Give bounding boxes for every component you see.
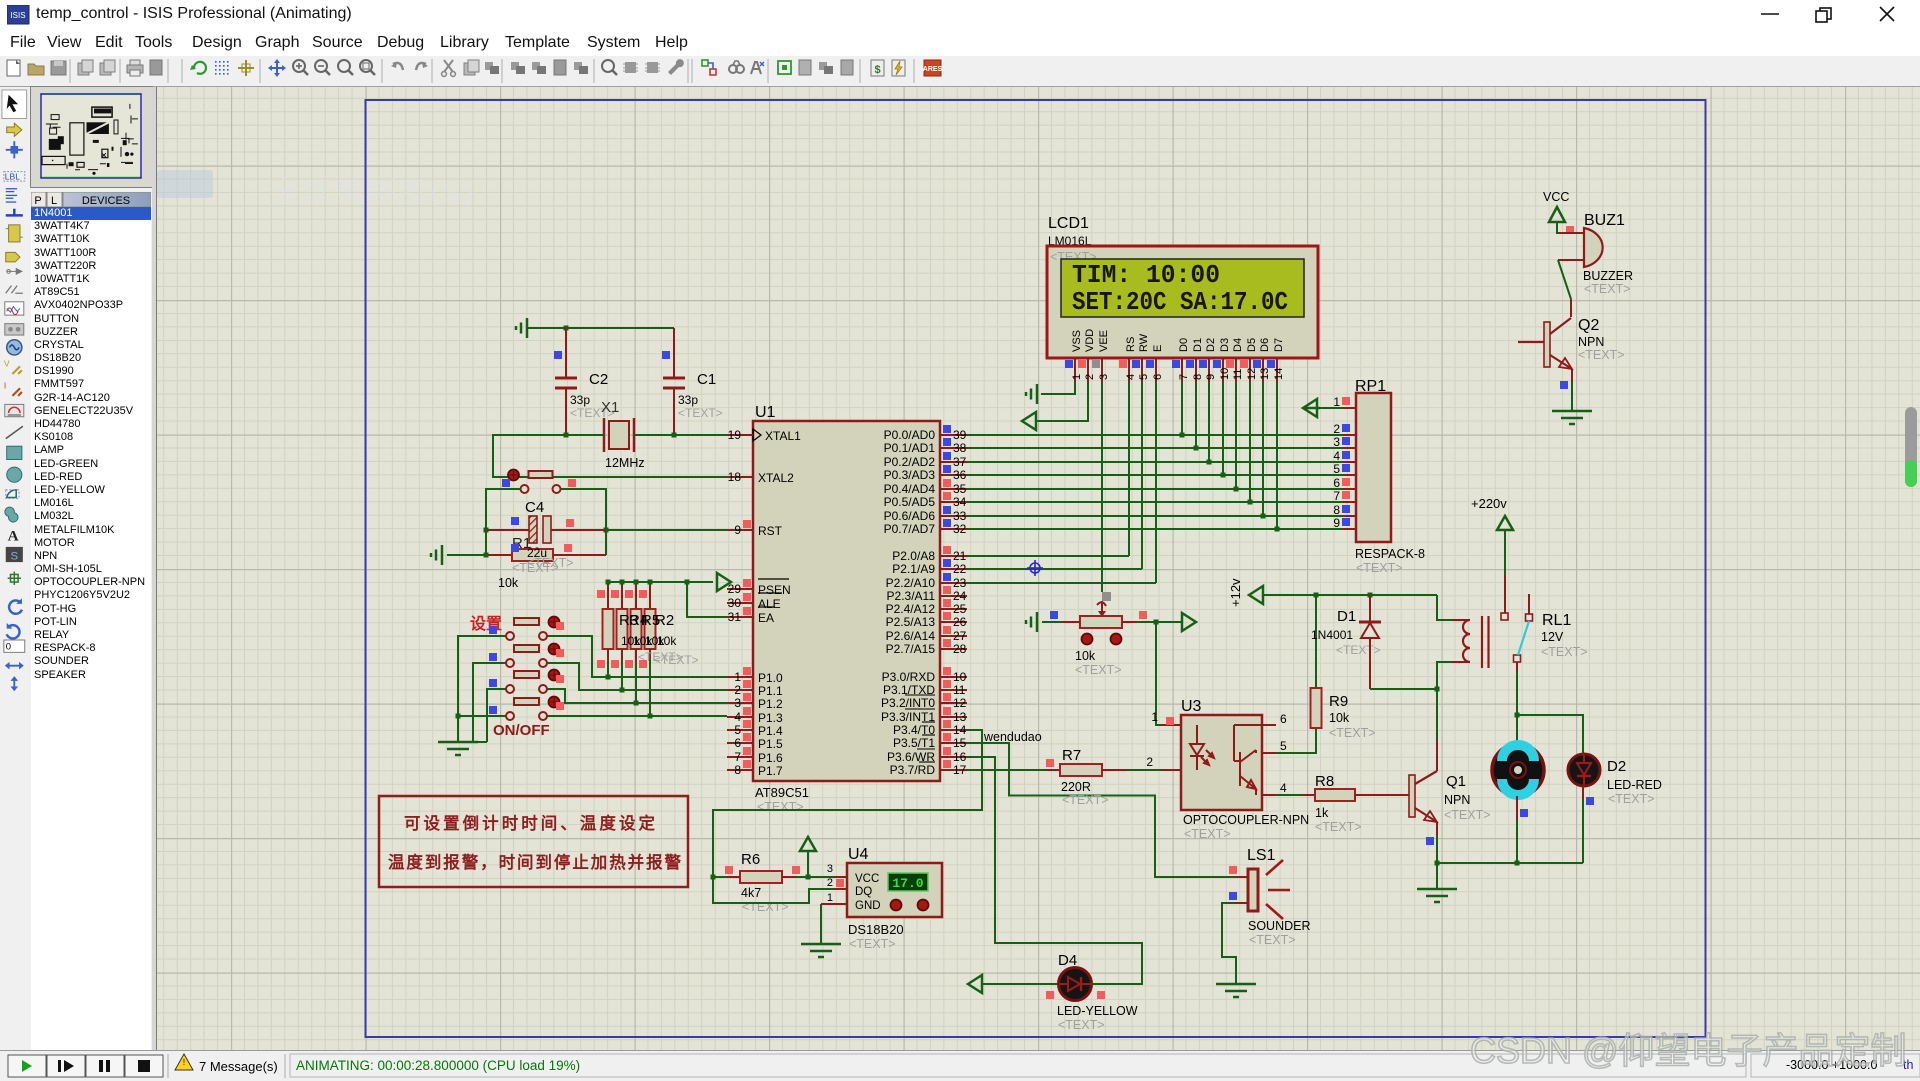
svg-text:PSEN: PSEN bbox=[758, 583, 791, 597]
svg-text:D3: D3 bbox=[1219, 338, 1231, 352]
terminal arrow (LCD VDD power) bbox=[1022, 382, 1088, 430]
svg-text:D0: D0 bbox=[1178, 338, 1190, 352]
left tool column bbox=[0, 87, 30, 1050]
wire EA branch bbox=[687, 582, 727, 617]
resistor R1 10k bbox=[486, 544, 606, 590]
wire LCD D0 vertical bbox=[1181, 382, 1183, 435]
junction buttons left bbox=[456, 714, 461, 719]
svg-text:P0.3/AD3: P0.3/AD3 bbox=[884, 468, 936, 482]
svg-text:P3.0/RXD: P3.0/RXD bbox=[882, 670, 936, 684]
svg-text:ON/OFF: ON/OFF bbox=[493, 722, 550, 739]
svg-text:DS18B20: DS18B20 bbox=[848, 922, 904, 937]
svg-text:2: 2 bbox=[734, 683, 741, 697]
label ON/OFF bbox=[493, 722, 550, 739]
svg-text:DEVICES: DEVICES bbox=[82, 195, 130, 207]
svg-text:6: 6 bbox=[1152, 374, 1164, 380]
wire P0.1 net bbox=[967, 447, 1343, 449]
potentiometer RV 10k bbox=[1050, 601, 1147, 677]
svg-text:RS: RS bbox=[1125, 337, 1137, 352]
wire LCD D5 vertical bbox=[1249, 382, 1251, 502]
wire XTAL1 net bbox=[634, 434, 727, 436]
ground (pot left) bbox=[1026, 612, 1062, 632]
sounder LS1 bbox=[1229, 847, 1311, 947]
svg-text:34: 34 bbox=[953, 495, 967, 509]
svg-text:D4: D4 bbox=[1232, 338, 1244, 352]
left panel bbox=[29, 87, 152, 1050]
svg-text:BUZZER: BUZZER bbox=[1583, 269, 1633, 283]
junction C2 bottom bbox=[564, 433, 569, 438]
svg-text:7: 7 bbox=[1178, 374, 1190, 380]
svg-text:D2: D2 bbox=[1607, 758, 1626, 775]
diode D1 1N4001 bbox=[1311, 595, 1381, 689]
svg-text:2: 2 bbox=[1146, 755, 1153, 769]
resistor R3 10k (vertical) bbox=[597, 582, 614, 668]
LED D2 LED-RED bbox=[1568, 753, 1662, 806]
wire R4 bottom to P1.2 bbox=[635, 660, 637, 703]
svg-text:P1.5: P1.5 bbox=[758, 737, 783, 751]
wire D1 bottom rail bbox=[1370, 688, 1437, 690]
svg-text:ANIMATING: 00:00:28.800000 (CP: ANIMATING: 00:00:28.800000 (CPU load 19%… bbox=[296, 1058, 580, 1073]
wire R5 bottom to P1.3 bbox=[649, 660, 651, 716]
svg-text:14: 14 bbox=[1273, 368, 1285, 380]
svg-text:2: 2 bbox=[1333, 422, 1340, 436]
ground (reset R1 left) bbox=[431, 545, 486, 565]
svg-text:SET:20C SA:17.0C: SET:20C SA:17.0C bbox=[1072, 287, 1288, 317]
svg-text:P0.1/AD1: P0.1/AD1 bbox=[884, 441, 936, 455]
capacitor C1 33p bbox=[662, 328, 723, 435]
svg-text:220R: 220R bbox=[1061, 780, 1091, 794]
wire P3.6 to D4 bbox=[967, 757, 1142, 984]
svg-text:1: 1 bbox=[734, 670, 741, 684]
svg-text:P2.1/A9: P2.1/A9 bbox=[892, 562, 935, 576]
wire R7 to U3 pin2 bbox=[1128, 769, 1161, 771]
optocoupler U3 OPTOCOUPLER-NPN bbox=[1146, 698, 1309, 841]
title bar bbox=[0, 0, 1920, 28]
buzzer BUZ1 bbox=[1558, 212, 1633, 296]
power terminal VCC bbox=[1543, 190, 1584, 234]
junction motor ground bbox=[1515, 861, 1520, 866]
svg-text:33p: 33p bbox=[570, 393, 590, 407]
wire LCD D2 vertical bbox=[1208, 382, 1210, 462]
svg-text:<TEXT>: <TEXT> bbox=[654, 653, 699, 667]
svg-text:5: 5 bbox=[734, 723, 741, 737]
svg-text:21: 21 bbox=[953, 549, 967, 563]
svg-text:35: 35 bbox=[953, 482, 967, 496]
junction R1 left bbox=[484, 553, 489, 558]
toolbar bbox=[0, 56, 1920, 87]
svg-text:NPN: NPN bbox=[1444, 793, 1470, 807]
svg-text:P0.2/AD2: P0.2/AD2 bbox=[884, 455, 936, 469]
terminal arrow at RP1 pin 1 bbox=[1303, 399, 1343, 417]
svg-text:5: 5 bbox=[1333, 462, 1340, 476]
wire XTAL2 net bbox=[493, 435, 727, 477]
junction R9 top bbox=[1314, 593, 1319, 598]
junction C1 bottom bbox=[672, 433, 677, 438]
junction D5 bbox=[1248, 500, 1253, 505]
svg-text:9: 9 bbox=[1205, 374, 1217, 380]
resistor R9 10k (vertical) bbox=[1311, 595, 1376, 740]
svg-text:3: 3 bbox=[734, 696, 741, 710]
svg-text:1: 1 bbox=[1333, 395, 1340, 409]
svg-text:38: 38 bbox=[953, 441, 967, 455]
svg-text:7 Message(s): 7 Message(s) bbox=[199, 1059, 278, 1074]
svg-text:VEE: VEE bbox=[1098, 330, 1110, 352]
svg-text:ARES: ARES bbox=[923, 66, 943, 73]
junction D1 top bbox=[1368, 593, 1373, 598]
svg-text:12MHz: 12MHz bbox=[605, 456, 645, 470]
motor M bbox=[1492, 744, 1544, 820]
status bar bbox=[0, 1050, 1920, 1081]
svg-text:12: 12 bbox=[1246, 368, 1258, 380]
resistor R8 1k bbox=[1302, 773, 1409, 834]
junction D0 bbox=[1180, 433, 1185, 438]
wire P2.2-E net bbox=[967, 382, 1156, 583]
wire U3 pin4 to R8 bbox=[1276, 794, 1302, 796]
junction D2 bbox=[1207, 460, 1212, 465]
svg-text:39: 39 bbox=[953, 428, 967, 442]
svg-text:RST: RST bbox=[758, 524, 783, 538]
svg-text:1: 1 bbox=[1071, 374, 1083, 380]
junction C2 top bbox=[564, 326, 569, 331]
svg-text:10k: 10k bbox=[1075, 649, 1096, 663]
wire P3.4 to DS18B20 DQ bbox=[713, 730, 982, 877]
reset button bbox=[502, 470, 576, 494]
labels R3 R4 R5 R2 overlapped bbox=[619, 612, 699, 667]
junction C4 left bbox=[484, 528, 489, 533]
wire P1.2 net bbox=[548, 689, 727, 703]
svg-text:8: 8 bbox=[734, 763, 741, 777]
svg-text:P1.1: P1.1 bbox=[758, 684, 783, 698]
svg-text:SOUNDER: SOUNDER bbox=[1248, 919, 1311, 933]
wire R3 bottom to P1.1 bbox=[621, 660, 623, 690]
svg-text:P2.3/A11: P2.3/A11 bbox=[887, 589, 936, 603]
junction bus x650 bbox=[648, 580, 653, 585]
svg-text:P0.7/AD7: P0.7/AD7 bbox=[884, 522, 936, 536]
svg-text:1N4001: 1N4001 bbox=[1311, 628, 1353, 642]
svg-text:0: 0 bbox=[6, 642, 11, 653]
svg-text:R6: R6 bbox=[741, 851, 760, 868]
junction D3 bbox=[1221, 473, 1226, 478]
svg-text:I: I bbox=[4, 380, 6, 390]
terminal arrow (pot) bbox=[1182, 613, 1196, 631]
svg-text:RESPACK-8: RESPACK-8 bbox=[1355, 547, 1425, 561]
terminal arrow (D4) bbox=[968, 975, 1059, 993]
wire relay to motor bbox=[1516, 672, 1518, 745]
svg-text:10: 10 bbox=[953, 670, 967, 684]
schematic sheet border bbox=[366, 100, 1706, 1037]
svg-text:6: 6 bbox=[734, 736, 741, 750]
wire LS1 to ground bbox=[1222, 903, 1236, 984]
wire P1.3 net bbox=[548, 715, 727, 717]
svg-text:19: 19 bbox=[728, 428, 742, 442]
svg-text:33p: 33p bbox=[678, 393, 698, 407]
svg-text:13: 13 bbox=[1259, 368, 1271, 380]
junction D6 bbox=[1261, 514, 1266, 519]
svg-text:18: 18 bbox=[728, 470, 742, 484]
wire R2 bottom to P1.0 bbox=[607, 660, 609, 677]
svg-text:<TEXT>: <TEXT> bbox=[1184, 827, 1231, 841]
svg-text:P1.6: P1.6 bbox=[758, 751, 783, 765]
svg-text:XTAL2: XTAL2 bbox=[758, 471, 794, 485]
svg-text:P0.4/AD4: P0.4/AD4 bbox=[884, 482, 936, 496]
resistor R5 10k (vertical) bbox=[625, 582, 642, 668]
junction relay coil bottom bbox=[1435, 687, 1440, 692]
svg-text:BUZ1: BUZ1 bbox=[1584, 212, 1625, 229]
svg-text:<TEXT>: <TEXT> bbox=[1541, 645, 1588, 659]
wire motor to D2 top bbox=[1517, 715, 1583, 753]
svg-text:D6: D6 bbox=[1259, 338, 1271, 352]
svg-text:27: 27 bbox=[953, 629, 967, 643]
wire P2.0-RS net bbox=[967, 382, 1129, 556]
wire P2.1-RW net bbox=[967, 382, 1142, 569]
svg-text:ALE: ALE bbox=[758, 597, 781, 611]
capacitor C4 22u (electrolytic) bbox=[486, 499, 606, 559]
svg-text:NPN: NPN bbox=[1578, 335, 1604, 349]
svg-text:X1: X1 bbox=[601, 399, 619, 416]
svg-text:7: 7 bbox=[734, 750, 741, 764]
svg-text:wendudao: wendudao bbox=[983, 730, 1042, 744]
svg-text:23: 23 bbox=[953, 576, 967, 590]
svg-text:3: 3 bbox=[1098, 374, 1110, 380]
svg-text:D1: D1 bbox=[1337, 608, 1356, 625]
svg-text:3: 3 bbox=[1333, 435, 1340, 449]
svg-text:P3.5/T1: P3.5/T1 bbox=[893, 736, 935, 750]
junction bus x687 bbox=[685, 580, 690, 585]
svg-text:P3.7/RD: P3.7/RD bbox=[890, 763, 936, 777]
svg-text:24: 24 bbox=[953, 589, 967, 603]
svg-text:22u: 22u bbox=[527, 546, 547, 560]
svg-text:RW: RW bbox=[1138, 333, 1150, 352]
transistor Q2 NPN bbox=[1518, 299, 1625, 389]
svg-text:LCD1: LCD1 bbox=[1048, 215, 1089, 232]
svg-text:6: 6 bbox=[1280, 712, 1287, 726]
svg-text:1: 1 bbox=[1151, 710, 1158, 724]
wire P0.7 net bbox=[967, 528, 1343, 530]
wire DQ route bbox=[713, 877, 834, 903]
svg-text:16: 16 bbox=[953, 750, 967, 764]
svg-text:13: 13 bbox=[953, 710, 967, 724]
svg-text:10: 10 bbox=[1219, 368, 1231, 380]
svg-text:26: 26 bbox=[953, 615, 967, 629]
svg-text:D5: D5 bbox=[1246, 338, 1258, 352]
wire LCD VEE to pot bbox=[1101, 382, 1103, 592]
wire R6 right to U4 VCC bbox=[795, 876, 834, 878]
push button B1 bbox=[489, 617, 564, 641]
svg-text:32: 32 bbox=[953, 522, 967, 536]
wire Q1 emitter to ground rail bbox=[1437, 835, 1583, 863]
junction R at P1.0 bbox=[606, 675, 611, 680]
LCD display LCD1 LM016L bbox=[1047, 215, 1318, 382]
resistor R6 4k7 bbox=[713, 851, 800, 914]
wire LCD D6 vertical bbox=[1262, 382, 1264, 516]
svg-text:2: 2 bbox=[1084, 374, 1096, 380]
ground (top left of crystal) bbox=[516, 318, 527, 338]
junction bus x622 bbox=[620, 580, 625, 585]
label SheZhi bbox=[470, 615, 502, 633]
svg-text:33: 33 bbox=[953, 509, 967, 523]
svg-text:<TEXT>: <TEXT> bbox=[1062, 793, 1109, 807]
svg-text:37: 37 bbox=[953, 455, 967, 469]
svg-text:C2: C2 bbox=[589, 371, 608, 388]
svg-text:5: 5 bbox=[1138, 374, 1150, 380]
junction C4 right bbox=[604, 528, 609, 533]
relay RL1 labels bbox=[1541, 612, 1588, 659]
svg-text:31: 31 bbox=[728, 610, 742, 624]
wire RST net bbox=[606, 529, 727, 531]
terminal arrow PSEN bus bbox=[717, 573, 731, 591]
svg-text:10k: 10k bbox=[657, 634, 677, 648]
svg-text:V: V bbox=[4, 358, 10, 368]
microcontroller U1 AT89C51 bbox=[727, 404, 967, 814]
svg-text:Q2: Q2 bbox=[1578, 317, 1599, 334]
svg-text:R9: R9 bbox=[1329, 693, 1348, 710]
svg-text:OPTOCOUPLER-NPN: OPTOCOUPLER-NPN bbox=[1183, 813, 1309, 827]
svg-text:7: 7 bbox=[1333, 489, 1340, 503]
resistor R2 10k (vertical) bbox=[639, 582, 656, 668]
svg-text:1: 1 bbox=[827, 892, 833, 904]
svg-text:U3: U3 bbox=[1181, 698, 1202, 715]
svg-text:12V: 12V bbox=[1541, 630, 1564, 644]
push button B4 bbox=[489, 697, 564, 721]
wire P1.0 net bbox=[548, 636, 727, 677]
LED D4 LED-YELLOW bbox=[1046, 952, 1138, 1032]
wire pot to U3 pin1 bbox=[1156, 622, 1161, 725]
svg-text:P1.0: P1.0 bbox=[758, 671, 783, 685]
ground (motor/Q1 rail) bbox=[1417, 863, 1457, 902]
wire motor bottom bbox=[1516, 820, 1518, 863]
svg-text:D1: D1 bbox=[1192, 338, 1204, 352]
svg-text:8: 8 bbox=[1333, 503, 1340, 517]
svg-text:4k7: 4k7 bbox=[741, 886, 761, 900]
junction R at P1.1 bbox=[620, 688, 625, 693]
scrollbar capsule bbox=[1902, 405, 1920, 490]
svg-text:5: 5 bbox=[1280, 739, 1287, 753]
svg-text:XTAL1: XTAL1 bbox=[765, 429, 801, 443]
svg-text:<TEXT>: <TEXT> bbox=[1075, 663, 1122, 677]
svg-text:30: 30 bbox=[728, 596, 742, 610]
wire U4 GND to ground bbox=[820, 904, 822, 944]
svg-text:P1.3: P1.3 bbox=[758, 711, 783, 725]
svg-text:P0.6/AD6: P0.6/AD6 bbox=[884, 509, 936, 523]
svg-text:!: ! bbox=[183, 1058, 185, 1067]
wire pot right to terminal bbox=[1136, 621, 1183, 623]
ground (LS1) bbox=[1216, 984, 1256, 997]
wire LCD D1 vertical bbox=[1195, 382, 1197, 448]
svg-text:RP1: RP1 bbox=[1355, 378, 1386, 395]
no-connect marker (VEE) bbox=[1102, 592, 1111, 601]
relay RL1 switch bbox=[1514, 594, 1533, 672]
wire relay coil loop bbox=[1437, 595, 1452, 689]
svg-text:<TEXT>: <TEXT> bbox=[1584, 282, 1631, 296]
svg-text:<TEXT>: <TEXT> bbox=[1356, 561, 1403, 575]
svg-text:17: 17 bbox=[953, 763, 967, 777]
svg-text:9: 9 bbox=[734, 523, 741, 537]
junction D1 bbox=[1194, 446, 1199, 451]
wire P0.2 net bbox=[967, 461, 1343, 463]
wire P3.5 wendudao net to sounder bbox=[967, 743, 1236, 877]
svg-text:10k: 10k bbox=[498, 576, 519, 590]
svg-text:S: S bbox=[10, 550, 18, 562]
svg-text:P2.0/A8: P2.0/A8 bbox=[892, 549, 935, 563]
svg-text:<TEXT>: <TEXT> bbox=[1315, 820, 1362, 834]
origin marker (blue) bbox=[1027, 560, 1043, 576]
wire gnd to C1/C2 tops bbox=[527, 327, 674, 329]
svg-text:<TEXT>: <TEXT> bbox=[1444, 808, 1491, 822]
svg-text:15: 15 bbox=[953, 736, 967, 750]
svg-text:<TEXT>: <TEXT> bbox=[1058, 1018, 1105, 1032]
power terminal +220v bbox=[1471, 496, 1513, 620]
svg-text:P2.2/A10: P2.2/A10 bbox=[886, 576, 936, 590]
svg-text:25: 25 bbox=[953, 602, 967, 616]
svg-text:$: $ bbox=[874, 64, 880, 76]
svg-text:P2.5/A13: P2.5/A13 bbox=[886, 615, 936, 629]
svg-text:GND: GND bbox=[855, 900, 881, 912]
svg-text:3: 3 bbox=[827, 863, 833, 875]
watermarks bbox=[157, 170, 213, 198]
svg-text:8: 8 bbox=[1192, 374, 1204, 380]
svg-text:U1: U1 bbox=[755, 404, 776, 421]
resistor pack RP1 RESPACK-8 bbox=[1333, 378, 1425, 575]
svg-text:DQ: DQ bbox=[855, 886, 872, 898]
wire LCD D7 vertical bbox=[1276, 382, 1278, 529]
svg-text:R8: R8 bbox=[1315, 773, 1334, 790]
svg-text:6: 6 bbox=[1333, 476, 1340, 490]
wire P1.1 net bbox=[548, 663, 727, 690]
svg-text:P1.7: P1.7 bbox=[758, 764, 783, 778]
svg-text:P0.0/AD0: P0.0/AD0 bbox=[884, 428, 936, 442]
svg-text:P1.4: P1.4 bbox=[758, 724, 783, 738]
wire buzzer to Q2 collector bbox=[1558, 260, 1571, 299]
svg-text:Q1: Q1 bbox=[1446, 773, 1466, 790]
wire D2 bottom bbox=[1582, 800, 1584, 863]
svg-text:22: 22 bbox=[953, 562, 967, 576]
svg-text:RL1: RL1 bbox=[1542, 612, 1571, 629]
push button B3 bbox=[489, 670, 564, 694]
svg-text:P2.4/A12: P2.4/A12 bbox=[886, 602, 936, 616]
menu bar bbox=[0, 28, 1920, 56]
svg-text:14: 14 bbox=[953, 723, 967, 737]
power terminal +12v bbox=[1228, 578, 1437, 607]
svg-text:<TEXT>: <TEXT> bbox=[757, 800, 804, 814]
svg-text:12: 12 bbox=[953, 696, 967, 710]
svg-text:AT89C51: AT89C51 bbox=[755, 785, 809, 800]
transistor Q1 NPN bbox=[1409, 740, 1491, 845]
crystal X1 12MHz bbox=[601, 399, 645, 470]
wire LCD D4 vertical bbox=[1235, 382, 1237, 489]
wire P0.0 net bbox=[967, 434, 1343, 436]
svg-text:4: 4 bbox=[1280, 781, 1287, 795]
svg-text:VDD: VDD bbox=[1084, 329, 1096, 352]
wire reset button left bbox=[486, 489, 520, 555]
svg-text:4: 4 bbox=[1125, 374, 1137, 380]
svg-text:VCC: VCC bbox=[1543, 190, 1569, 204]
junction R at P1.2 bbox=[634, 701, 639, 706]
svg-text:温度到报警，时间到停止加热并报警: 温度到报警，时间到停止加热并报警 bbox=[388, 852, 682, 872]
wire U3 pin5 to R9 bbox=[1276, 728, 1316, 753]
svg-text:ISIS: ISIS bbox=[10, 11, 25, 20]
svg-text:LBL: LBL bbox=[5, 171, 20, 181]
svg-text:<TEXT>: <TEXT> bbox=[1329, 726, 1376, 740]
svg-text:EA: EA bbox=[758, 611, 774, 625]
svg-text:11: 11 bbox=[953, 683, 966, 697]
temperature sensor U4 DS18B20 bbox=[821, 846, 942, 951]
schematic canvas bbox=[152, 87, 157, 1050]
wire P0.4 net bbox=[967, 488, 1343, 490]
junction motor top bbox=[1515, 713, 1520, 718]
junction R at P1.3 bbox=[648, 714, 653, 719]
svg-text:36: 36 bbox=[953, 468, 967, 482]
ground (buttons) bbox=[438, 742, 478, 755]
